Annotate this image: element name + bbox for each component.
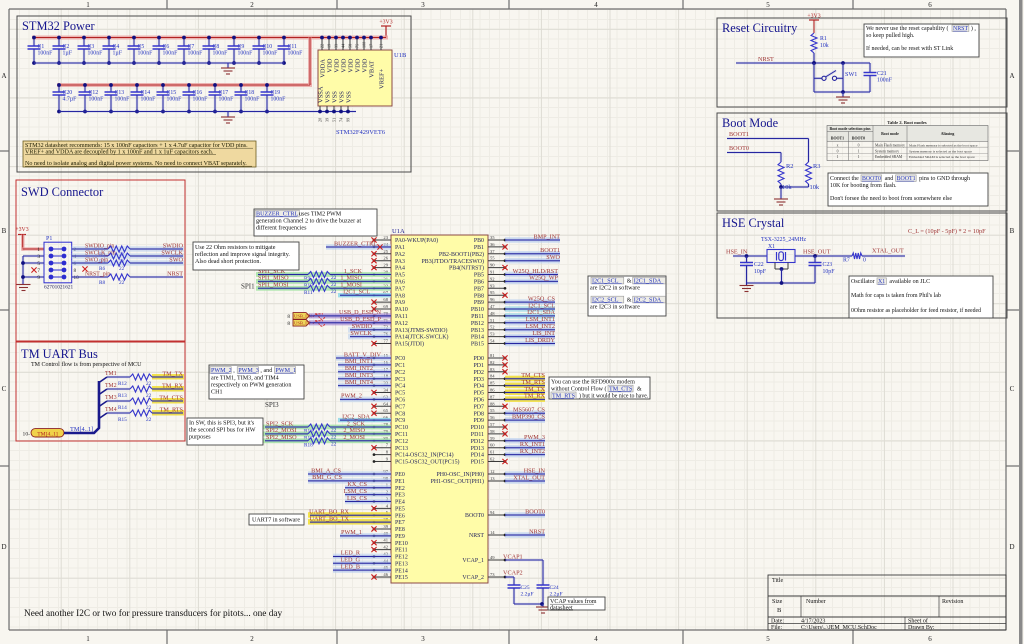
svg-text:PB3(JTDO/TRACESWO): PB3(JTDO/TRACESWO): [421, 258, 484, 265]
svg-text:B: B: [777, 607, 782, 614]
svg-text:uses TIM2 PWM: uses TIM2 PWM: [299, 212, 342, 218]
svg-text:C23: C23: [823, 262, 833, 268]
svg-text:35: 35: [490, 235, 495, 240]
svg-text:NRST: NRST: [758, 56, 774, 63]
svg-text:PD1: PD1: [474, 363, 485, 369]
svg-text:9: 9: [37, 275, 40, 281]
svg-text:&: &: [627, 298, 632, 304]
svg-text:System memory: System memory: [875, 149, 899, 153]
svg-text:6: 6: [928, 635, 932, 643]
svg-text:BOOT0: BOOT0: [465, 513, 484, 519]
svg-text:If needed, can be reset with S: If needed, can be reset with ST Link: [866, 45, 953, 52]
svg-text:Math for caps is taken from Ph: Math for caps is taken from Phil's lab: [851, 292, 941, 299]
svg-text:C_L = (10pF - 5pF) * 2 = 10pF: C_L = (10pF - 5pF) * 2 = 10pF: [908, 228, 986, 235]
svg-text:VSS: VSS: [332, 91, 339, 103]
svg-text:R14: R14: [118, 405, 127, 411]
svg-text:SWO_pin: SWO_pin: [85, 257, 108, 263]
svg-text:58: 58: [348, 44, 353, 48]
svg-text:10k: 10k: [810, 184, 820, 191]
svg-text:C8: C8: [213, 44, 220, 50]
svg-text:Main Flash memory: Main Flash memory: [875, 143, 905, 147]
svg-text:2.2µF: 2.2µF: [521, 592, 534, 598]
svg-text:23: 23: [383, 235, 388, 240]
svg-text:BOOT1: BOOT1: [831, 137, 844, 141]
svg-text:75: 75: [355, 44, 360, 48]
svg-text:55: 55: [490, 408, 495, 413]
svg-text:HSE_OUT: HSE_OUT: [803, 249, 831, 256]
svg-text:100nF: 100nF: [213, 51, 229, 57]
svg-text:3: 3: [421, 635, 425, 643]
svg-text:PE2: PE2: [395, 486, 405, 492]
svg-text:You can use the RFD900x modem: You can use the RFD900x modem: [551, 380, 635, 386]
svg-text:HSE_IN: HSE_IN: [726, 249, 748, 256]
svg-text:PD0: PD0: [474, 356, 485, 362]
svg-text:PB8: PB8: [474, 293, 484, 299]
svg-text:17: 17: [369, 44, 374, 48]
svg-text:TSX-3225_24MHz: TSX-3225_24MHz: [761, 237, 807, 243]
svg-text:+3V3: +3V3: [807, 14, 820, 20]
svg-text:100nF: 100nF: [89, 97, 105, 103]
svg-text:SPI3: SPI3: [265, 401, 279, 409]
svg-text:8: 8: [287, 321, 290, 327]
svg-text:8: 8: [74, 268, 77, 274]
svg-text:100nF: 100nF: [138, 51, 154, 57]
svg-text:52: 52: [490, 325, 495, 330]
svg-text:100nF: 100nF: [115, 97, 131, 103]
svg-text:1: 1: [37, 247, 40, 253]
svg-text:BOOT0: BOOT0: [525, 508, 545, 515]
svg-text:NRST: NRST: [529, 528, 545, 535]
svg-text:60: 60: [490, 443, 495, 448]
svg-text:PE7: PE7: [395, 520, 405, 526]
svg-text:58: 58: [490, 429, 495, 434]
svg-text:39: 39: [325, 118, 330, 122]
svg-text:VSS: VSS: [325, 91, 332, 103]
svg-text:PB5: PB5: [474, 273, 484, 279]
svg-text:PA13(JTMS-SWDIO): PA13(JTMS-SWDIO): [395, 327, 448, 334]
svg-text:available on JLC: available on JLC: [889, 279, 930, 285]
svg-text:PH1-OSC_OUT(PH1): PH1-OSC_OUT(PH1): [431, 478, 484, 485]
svg-text:51: 51: [490, 318, 495, 323]
svg-text:96: 96: [490, 297, 495, 302]
svg-text:VCAP1: VCAP1: [503, 553, 523, 560]
svg-text:22: 22: [119, 280, 125, 286]
svg-text:51: 51: [332, 118, 337, 122]
svg-text:&: &: [627, 279, 632, 285]
svg-text:PA8: PA8: [395, 293, 405, 299]
svg-text:100nF: 100nF: [219, 97, 235, 103]
svg-text:U1B: U1B: [394, 52, 407, 59]
svg-text:99: 99: [346, 118, 351, 122]
svg-text:I2C1_SCL: I2C1_SCL: [343, 289, 370, 296]
svg-text:C5: C5: [138, 44, 145, 50]
svg-text:NRST: NRST: [167, 270, 183, 277]
svg-text:A: A: [1009, 72, 1014, 80]
svg-text:62701021621: 62701021621: [44, 285, 73, 291]
svg-text:VDD: VDD: [341, 58, 348, 72]
svg-text:0Ohm resistor as placeholder f: 0Ohm resistor as placeholder for feed re…: [851, 307, 981, 314]
svg-text:different frequencies: different frequencies: [256, 225, 307, 232]
svg-text:10k: 10k: [820, 43, 829, 49]
svg-text:100nF: 100nF: [271, 97, 287, 103]
svg-text:PB10: PB10: [471, 307, 484, 313]
svg-text:HSE_IN: HSE_IN: [524, 467, 546, 474]
svg-text:R1: R1: [820, 36, 827, 42]
svg-text:C24: C24: [550, 585, 559, 591]
svg-text:85: 85: [490, 381, 495, 386]
svg-text:Also dead short protection.: Also dead short protection.: [195, 259, 261, 265]
svg-text:100nF: 100nF: [245, 97, 261, 103]
svg-text:59: 59: [490, 436, 495, 441]
svg-text:PD11: PD11: [471, 432, 484, 438]
svg-text:62: 62: [490, 457, 495, 462]
svg-text:C3: C3: [88, 44, 95, 50]
svg-text:VBAT: VBAT: [369, 61, 376, 78]
svg-text:9: 9: [386, 457, 389, 462]
svg-text:Size: Size: [772, 599, 783, 605]
svg-text:+3V3: +3V3: [379, 20, 392, 26]
svg-text:BMP390_CS: BMP390_CS: [512, 413, 546, 420]
svg-text:0: 0: [837, 149, 839, 153]
svg-text:STM32F429VET6: STM32F429VET6: [336, 129, 386, 136]
svg-text:PD13: PD13: [471, 446, 484, 452]
svg-text:3: 3: [37, 254, 40, 260]
svg-text:VSS: VSS: [346, 91, 353, 103]
svg-text:100nF: 100nF: [141, 97, 157, 103]
svg-text:TM3: TM3: [105, 395, 117, 401]
svg-text:PE0: PE0: [395, 472, 405, 478]
svg-text:STM32 Power: STM32 Power: [22, 19, 95, 33]
svg-text:CH1: CH1: [211, 390, 223, 396]
svg-text:PE3: PE3: [395, 493, 405, 499]
svg-text:100nF: 100nF: [193, 97, 209, 103]
svg-text:PWM_2: PWM_2: [341, 393, 362, 400]
svg-text:UART_BO_TX: UART_BO_TX: [309, 515, 349, 522]
svg-text:PE14: PE14: [395, 568, 408, 574]
svg-text:W25Q_WP: W25Q_WP: [529, 275, 558, 282]
svg-text:86: 86: [490, 388, 495, 393]
svg-text:SWO: SWO: [169, 256, 183, 263]
svg-text:Sheet of: Sheet of: [908, 618, 928, 625]
svg-text:File:: File:: [771, 625, 782, 631]
svg-text:4.7µF: 4.7µF: [63, 97, 78, 103]
svg-text:PC4: PC4: [395, 384, 405, 390]
svg-text:Boot Mode: Boot Mode: [722, 116, 779, 130]
svg-text:U1A: U1A: [392, 228, 405, 235]
svg-text:92: 92: [490, 276, 495, 281]
svg-text:Need another I2C or two for pr: Need another I2C or two for pressure tra…: [24, 608, 283, 619]
svg-text:21: 21: [379, 44, 384, 48]
svg-text:SPI1: SPI1: [241, 283, 255, 291]
svg-text:84: 84: [490, 374, 495, 379]
svg-text:PH0-OSC_IN(PH0): PH0-OSC_IN(PH0): [437, 471, 484, 478]
svg-text:VSSA: VSSA: [318, 86, 325, 103]
svg-text:PE8: PE8: [395, 527, 405, 533]
svg-text:PB6: PB6: [474, 280, 484, 286]
svg-text:are I2C3 in software: are I2C3 in software: [590, 304, 640, 311]
svg-text:6: 6: [928, 1, 932, 9]
svg-text:BMI_G_CS: BMI_G_CS: [312, 474, 342, 481]
svg-text:respectively on PWM generation: respectively on PWM generation: [211, 383, 291, 389]
svg-text:BOOT0: BOOT0: [852, 137, 865, 141]
svg-text:PE13: PE13: [395, 561, 408, 567]
svg-text:81: 81: [490, 353, 495, 358]
svg-text:Don't forsee the need to boot: Don't forsee the need to boot from somew…: [830, 195, 952, 202]
svg-text:PB11: PB11: [471, 314, 484, 320]
svg-text:100nF: 100nF: [167, 97, 183, 103]
svg-text:Boot mode: Boot mode: [881, 132, 899, 136]
svg-text:) ,: ) ,: [971, 25, 976, 32]
svg-text:PA2: PA2: [395, 252, 405, 258]
svg-text:PB14: PB14: [471, 335, 484, 341]
svg-text:8: 8: [386, 450, 389, 455]
svg-text:C20: C20: [63, 90, 73, 96]
svg-text:0: 0: [858, 143, 860, 147]
svg-text:BMP_INT: BMP_INT: [534, 233, 561, 240]
svg-text:Use 22 Ohm resistors to mitiga: Use 22 Ohm resistors to mitigate: [195, 245, 276, 251]
svg-text:C: C: [2, 385, 7, 393]
svg-text:PA14(JTCK-SWCLK): PA14(JTCK-SWCLK): [395, 334, 448, 341]
svg-text:Embedded SRAM: Embedded SRAM: [875, 155, 903, 159]
svg-text:VCAP_2: VCAP_2: [462, 575, 484, 581]
svg-text:95: 95: [490, 290, 495, 295]
svg-text:0: 0: [863, 258, 866, 264]
svg-text:100nF: 100nF: [38, 51, 54, 57]
svg-text:10pF: 10pF: [823, 269, 836, 275]
svg-text:PC7: PC7: [395, 404, 405, 410]
svg-text:A: A: [1, 72, 6, 80]
svg-text:are TIM1, TIM3, and TIM4: are TIM1, TIM3, and TIM4: [211, 376, 279, 382]
svg-text:LIS_CS: LIS_CS: [347, 495, 368, 502]
svg-text:PC0: PC0: [395, 356, 405, 362]
svg-text:PB4(NJTRST): PB4(NJTRST): [449, 265, 484, 272]
svg-text:87: 87: [490, 394, 495, 399]
svg-text:1µF: 1µF: [63, 51, 73, 57]
svg-text:14: 14: [490, 530, 495, 535]
svg-text:55: 55: [490, 256, 495, 261]
svg-text:83: 83: [490, 367, 495, 372]
svg-text:PC5: PC5: [395, 391, 405, 397]
svg-text:PB15: PB15: [471, 342, 484, 348]
svg-text:10-: 10-: [23, 431, 31, 437]
svg-text:+3V3: +3V3: [15, 227, 28, 233]
svg-text:91: 91: [490, 270, 495, 275]
svg-text:TM2: TM2: [105, 383, 117, 389]
svg-text:PC1: PC1: [395, 363, 405, 369]
svg-text:XTAL_OUT: XTAL_OUT: [872, 248, 904, 255]
svg-text:10pF: 10pF: [754, 269, 767, 275]
svg-text:C25: C25: [521, 585, 530, 591]
svg-text:Main Flash memory is selected: Main Flash memory is selected as the boo…: [909, 143, 978, 147]
svg-text:Drawn By:: Drawn By:: [908, 625, 935, 631]
svg-text:TM_CTS: TM_CTS: [159, 394, 183, 401]
svg-text:53: 53: [490, 332, 495, 337]
svg-text:reflection and improve signal: reflection and improve signal integrity.: [195, 251, 290, 258]
svg-text:54: 54: [490, 339, 495, 344]
svg-text:C18: C18: [245, 90, 255, 96]
svg-text:22: 22: [119, 266, 125, 272]
svg-text:NRST_pin: NRST_pin: [85, 271, 110, 277]
svg-text:3: 3: [421, 1, 425, 9]
svg-text:PE9: PE9: [395, 534, 405, 540]
svg-text:37: 37: [490, 249, 495, 254]
svg-text:C4: C4: [113, 44, 120, 50]
svg-text:5: 5: [766, 1, 770, 9]
svg-text:1: 1: [86, 635, 90, 643]
svg-text:TM_RTS: TM_RTS: [160, 406, 184, 413]
svg-text:PC9: PC9: [395, 418, 405, 424]
svg-text:PD15: PD15: [471, 460, 484, 466]
svg-text:PC8: PC8: [395, 411, 405, 417]
svg-text:7: 7: [37, 268, 40, 274]
svg-text:purposes: purposes: [189, 435, 211, 441]
svg-text:SWDIO: SWDIO: [163, 242, 184, 249]
svg-text:R3: R3: [813, 163, 820, 170]
svg-text:PB7: PB7: [474, 286, 484, 292]
svg-text:so keep pulled high.: so keep pulled high.: [866, 33, 915, 39]
svg-text:C12: C12: [89, 90, 99, 96]
svg-text:PC14-OSC32_IN(PC14): PC14-OSC32_IN(PC14): [395, 452, 454, 459]
svg-text:R12: R12: [118, 381, 127, 387]
svg-text:4/17/2023: 4/17/2023: [801, 619, 825, 625]
svg-text:B: B: [2, 227, 7, 235]
svg-text:STM32 datasheet recommends: 15: STM32 datasheet recommends: 15 x 100nF c…: [25, 142, 248, 149]
svg-text:PE12: PE12: [395, 555, 408, 561]
svg-text:R15: R15: [118, 417, 127, 423]
svg-text:PWM_1: PWM_1: [341, 529, 362, 536]
svg-text:C11: C11: [288, 44, 298, 50]
svg-text:PA15(JTDI): PA15(JTDI): [395, 341, 424, 348]
svg-text:Reset Circuitry: Reset Circuitry: [722, 21, 798, 35]
svg-text:2: 2: [250, 1, 254, 9]
svg-text:13: 13: [490, 476, 495, 481]
svg-text:Connect the: Connect the: [830, 176, 859, 182]
svg-text:VCAP_1: VCAP_1: [462, 558, 484, 564]
svg-text:LIS_DRDY: LIS_DRDY: [525, 337, 555, 344]
svg-text:7: 7: [386, 443, 389, 448]
svg-text:C10: C10: [263, 44, 273, 50]
svg-text:PD6: PD6: [474, 398, 485, 404]
svg-text:TM[4..1]: TM[4..1]: [37, 431, 58, 437]
svg-text:C21: C21: [877, 71, 887, 77]
svg-text:System memory is selected as t: System memory is selected as the boot sp…: [909, 149, 972, 153]
svg-text:82: 82: [490, 360, 495, 365]
svg-text:SWCLK: SWCLK: [350, 330, 372, 337]
svg-text:PB12: PB12: [471, 321, 484, 327]
svg-text:USB_DP: USB_DP: [294, 321, 312, 326]
svg-text:C7: C7: [188, 44, 195, 50]
svg-text:5: 5: [37, 261, 40, 267]
svg-text:SPI1_MOSI: SPI1_MOSI: [258, 282, 289, 289]
svg-text:without Control Flow (: without Control Flow (: [551, 386, 607, 393]
svg-text:) but it would be nice to have: ) but it would be nice to have.: [579, 392, 649, 399]
svg-text:are I2C2 in software: are I2C2 in software: [590, 285, 640, 292]
svg-text:73: 73: [490, 572, 495, 577]
svg-text:22: 22: [331, 441, 337, 447]
svg-text:8: 8: [287, 314, 290, 320]
svg-text:69: 69: [383, 304, 388, 309]
svg-text:VSS: VSS: [339, 91, 346, 103]
svg-text:PC13: PC13: [395, 446, 408, 452]
svg-text:SPI2_MISO: SPI2_MISO: [266, 434, 297, 441]
svg-text:93: 93: [490, 283, 495, 288]
svg-text:SWO: SWO: [546, 254, 560, 261]
svg-text:P1: P1: [46, 236, 52, 242]
svg-text:generation Channel 2 to drive: generation Channel 2 to drive the buzzer…: [256, 219, 361, 225]
svg-text:SW1: SW1: [845, 71, 857, 78]
svg-text:and: and: [885, 176, 894, 182]
svg-text:PB2-BOOT1(PB2): PB2-BOOT1(PB2): [439, 251, 484, 258]
svg-text:20: 20: [318, 118, 323, 122]
svg-text:22: 22: [146, 417, 152, 423]
svg-text:56: 56: [490, 415, 495, 420]
svg-text:Aliasing: Aliasing: [941, 132, 955, 136]
svg-text:pins to GND through: pins to GND through: [919, 176, 970, 182]
svg-text:PE5: PE5: [395, 506, 405, 512]
svg-text:4: 4: [594, 1, 598, 9]
svg-text:47: 47: [490, 304, 495, 309]
svg-text:VCAP values from: VCAP values from: [550, 598, 597, 605]
svg-text:NRST: NRST: [469, 533, 484, 539]
svg-text:PA9: PA9: [395, 300, 405, 306]
svg-text:TM_RX: TM_RX: [162, 382, 184, 389]
svg-text:C22: C22: [754, 262, 764, 268]
svg-text:C14: C14: [141, 90, 151, 96]
svg-text:SWCLK: SWCLK: [161, 249, 183, 256]
svg-text:4: 4: [594, 635, 598, 643]
svg-text:Date:: Date:: [771, 619, 784, 625]
svg-text:C6: C6: [163, 44, 170, 50]
svg-text:TM Control flow is from perspe: TM Control flow is from perspective of M…: [31, 361, 142, 368]
svg-text:VDD: VDD: [327, 58, 334, 72]
svg-text:TM_TX: TM_TX: [162, 370, 183, 377]
svg-text:39: 39: [383, 524, 388, 529]
svg-text:D: D: [1, 543, 6, 551]
svg-text:XTAL_OUT: XTAL_OUT: [513, 474, 545, 481]
svg-text:VDD: VDD: [362, 58, 369, 72]
svg-text:5: 5: [766, 635, 770, 643]
svg-text:B: B: [1010, 227, 1015, 235]
svg-text:49: 49: [490, 555, 495, 560]
svg-text:BOOT1: BOOT1: [729, 131, 749, 138]
svg-text:Title: Title: [772, 578, 783, 584]
svg-text:HSE Crystal: HSE Crystal: [722, 216, 785, 230]
svg-text:Revision: Revision: [942, 599, 963, 605]
svg-text:100nF: 100nF: [238, 51, 254, 57]
svg-text:PA0-WKUP(PA0): PA0-WKUP(PA0): [395, 237, 438, 244]
svg-text:VDD: VDD: [355, 58, 362, 72]
svg-text:PE15: PE15: [395, 575, 408, 581]
svg-text:42: 42: [383, 545, 388, 550]
svg-text:48: 48: [490, 311, 495, 316]
svg-text:C19: C19: [271, 90, 281, 96]
svg-text:1: 1: [858, 155, 860, 159]
svg-text:100nF: 100nF: [88, 51, 104, 57]
svg-text:100nF: 100nF: [288, 51, 304, 57]
svg-text:R18: R18: [304, 442, 313, 448]
svg-text:BMI_INT4: BMI_INT4: [345, 379, 373, 386]
svg-text:TM1: TM1: [105, 371, 117, 377]
svg-text:C2: C2: [63, 44, 70, 50]
svg-text:PD3: PD3: [474, 377, 485, 383]
svg-text:UART7 in software: UART7 in software: [252, 517, 300, 524]
svg-text:PA4: PA4: [395, 266, 405, 272]
svg-text:PD7: PD7: [474, 404, 485, 410]
svg-text:19: 19: [327, 44, 332, 48]
svg-text:Embedded SRAM is selected as t: Embedded SRAM is selected as the boot sp…: [909, 155, 975, 159]
svg-text:BOOT0: BOOT0: [729, 145, 749, 152]
svg-text:PA10: PA10: [395, 307, 408, 313]
